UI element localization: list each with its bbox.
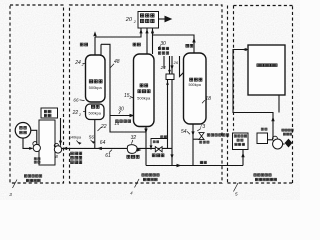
svg-text:500kpa: 500kpa bbox=[88, 111, 101, 115]
svg-text:500kpa: 500kpa bbox=[188, 83, 201, 87]
svg-text:48: 48 bbox=[114, 59, 120, 65]
svg-text:24: 24 bbox=[160, 65, 167, 70]
svg-text:66: 66 bbox=[73, 98, 79, 103]
svg-text:5: 5 bbox=[235, 192, 238, 197]
svg-text:22: 22 bbox=[100, 124, 107, 130]
svg-text:54: 54 bbox=[181, 129, 187, 135]
svg-text:32: 32 bbox=[131, 135, 137, 141]
svg-text:61: 61 bbox=[105, 153, 111, 159]
svg-text:140kpa: 140kpa bbox=[69, 135, 82, 139]
svg-text:2: 2 bbox=[128, 96, 131, 100]
svg-text:18: 18 bbox=[205, 96, 211, 102]
svg-text:30: 30 bbox=[118, 107, 124, 113]
svg-text:22: 22 bbox=[72, 110, 79, 116]
svg-text:500kpa: 500kpa bbox=[89, 85, 103, 90]
svg-text:30: 30 bbox=[160, 41, 166, 47]
svg-text:56: 56 bbox=[89, 135, 95, 140]
svg-text:500kpa: 500kpa bbox=[137, 95, 151, 100]
svg-text:2: 2 bbox=[78, 113, 81, 117]
svg-text:64: 64 bbox=[100, 140, 106, 146]
svg-text:24: 24 bbox=[74, 60, 81, 66]
svg-text:3: 3 bbox=[9, 192, 12, 197]
svg-text:20: 20 bbox=[125, 17, 133, 23]
svg-text:73: 73 bbox=[200, 124, 206, 130]
svg-text:26: 26 bbox=[173, 60, 179, 65]
svg-text:2: 2 bbox=[81, 63, 84, 67]
